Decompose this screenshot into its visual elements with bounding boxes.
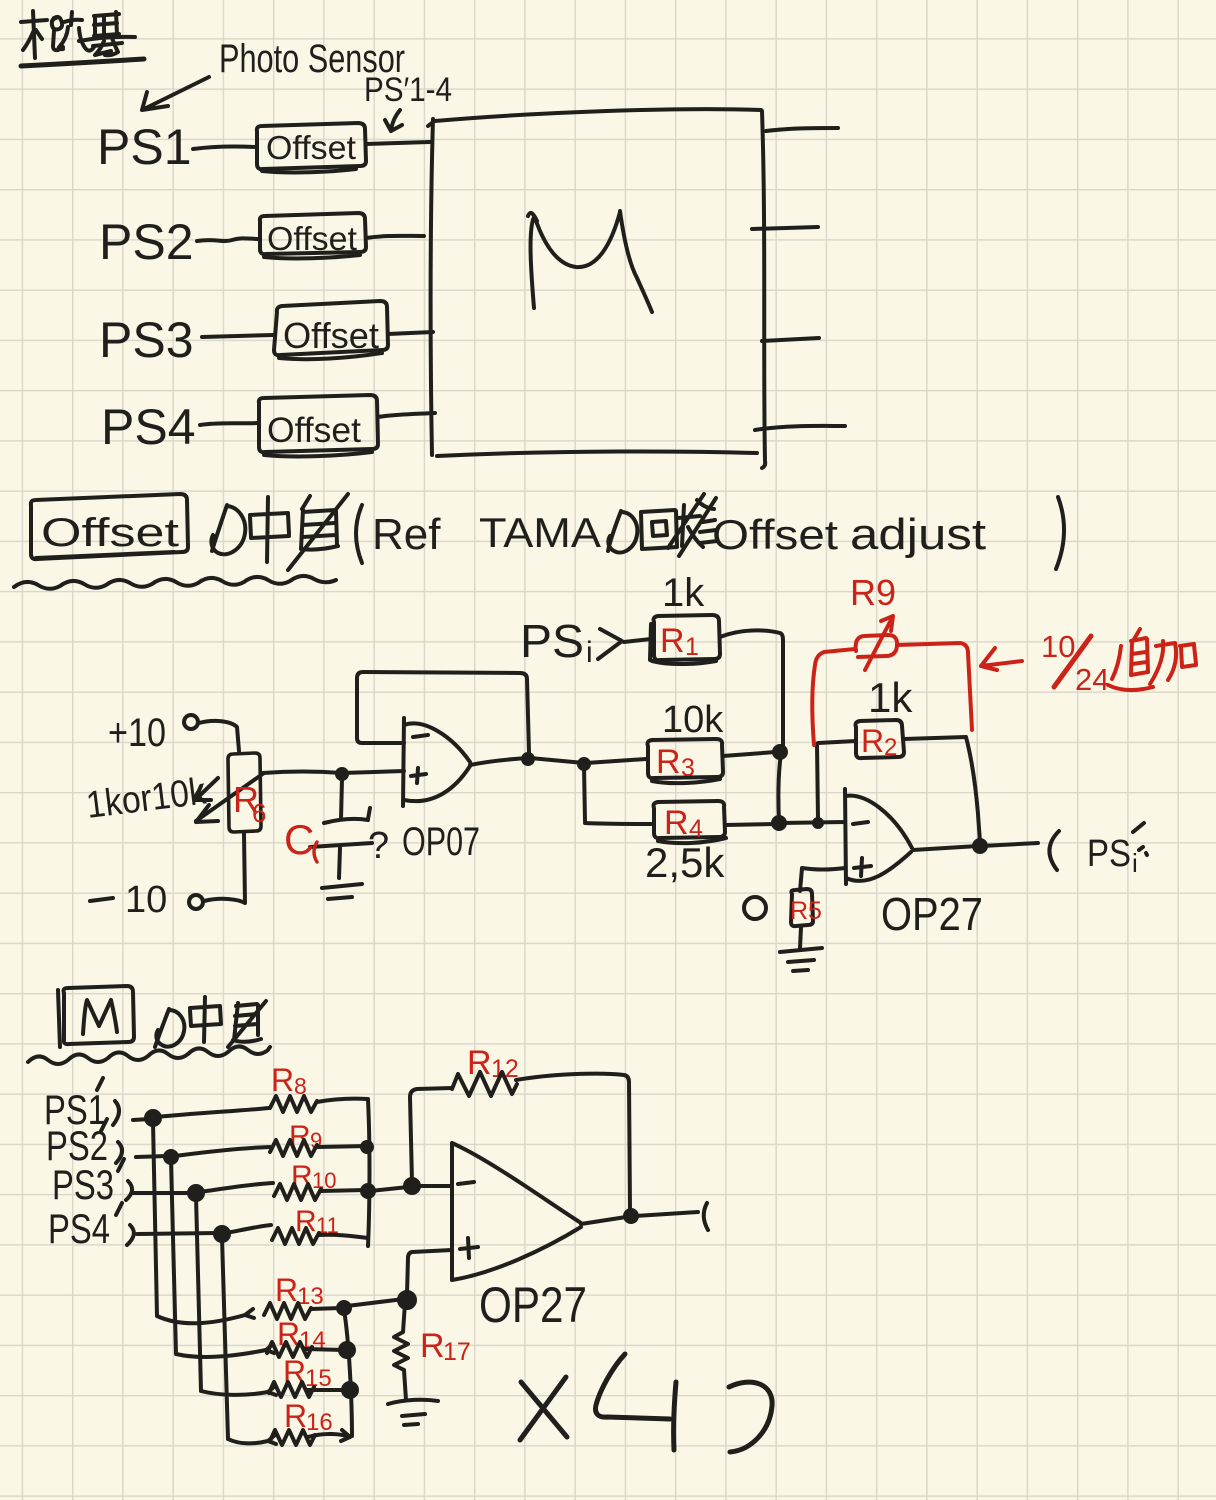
wire PS3' to R10 bbox=[200, 1183, 273, 1192]
wire R3 to bus bbox=[723, 752, 776, 756]
wavy underline bbox=[28, 1046, 270, 1064]
wire R8 to bus bbox=[317, 1099, 368, 1102]
vertical wire PS3' down bbox=[196, 1196, 268, 1395]
svg-text:3: 3 bbox=[681, 754, 695, 782]
resistor R1 bbox=[650, 615, 720, 664]
ground under R5 bbox=[780, 948, 822, 971]
node small at minus bbox=[814, 819, 822, 827]
wire R10 to bus bbox=[321, 1190, 366, 1191]
wire plus node to opamp bbox=[407, 1250, 452, 1294]
svg-text:R: R bbox=[656, 743, 681, 781]
svg-text:Offset: Offset bbox=[712, 511, 838, 558]
node output bbox=[974, 840, 986, 852]
svg-text:OP27: OP27 bbox=[479, 1277, 587, 1333]
opamp U2 OP27 bbox=[845, 789, 912, 884]
svg-text:OP07: OP07 bbox=[402, 820, 480, 864]
svg-text:PS: PS bbox=[520, 615, 584, 667]
open paren bbox=[356, 505, 362, 563]
wire node to opamp minus bbox=[781, 822, 845, 823]
output wire bbox=[581, 1212, 698, 1224]
node at feedback join bbox=[523, 754, 533, 764]
summing bus vertical bbox=[368, 1100, 370, 1246]
svg-text:R: R bbox=[275, 1272, 298, 1308]
offset block 2 bbox=[260, 213, 366, 258]
node R4 bus bbox=[773, 817, 785, 829]
offset block 1 bbox=[257, 123, 366, 172]
wire offset4 to M box bbox=[378, 413, 435, 417]
wire R13 to bus bbox=[311, 1308, 341, 1309]
resistor R17 vertical bbox=[394, 1303, 408, 1400]
M block box bbox=[428, 109, 765, 468]
wire R11 to bus bbox=[319, 1235, 368, 1238]
wire R9 right leg bbox=[897, 643, 972, 730]
kanji の bbox=[155, 1009, 184, 1047]
terminal circle 0 bbox=[744, 897, 766, 919]
output stub 4 bbox=[755, 426, 845, 430]
resistor R8 bbox=[270, 1096, 317, 1112]
resistor R4 bbox=[654, 801, 727, 843]
kanji 中 bbox=[250, 497, 289, 562]
lower bus vertical bbox=[344, 1310, 352, 1436]
feedback wire left R12 bbox=[410, 1088, 452, 1182]
node R1/R3 bus bbox=[774, 746, 786, 758]
resistor R15 bbox=[269, 1382, 314, 1397]
svg-text:2: 2 bbox=[884, 734, 897, 761]
svg-text:PS: PS bbox=[1087, 833, 1131, 875]
svg-text:Ref: Ref bbox=[372, 510, 441, 559]
wire PSi to R1 bbox=[624, 639, 651, 642]
vertical wire PS1' down bbox=[153, 1122, 245, 1323]
resistor R10 bbox=[274, 1184, 321, 1200]
wire PS3 to offset3 bbox=[202, 335, 274, 337]
resistor R3 bbox=[648, 739, 724, 783]
wire pot wiper to opamp bbox=[263, 771, 404, 773]
wire R13 bus to plus node bbox=[347, 1299, 404, 1306]
node R14 bbox=[340, 1343, 354, 1357]
feedback wire OP07 bbox=[357, 672, 529, 753]
title kanji 概要 bbox=[21, 11, 144, 66]
resistor R12 bbox=[452, 1072, 517, 1096]
kanji 回 bbox=[641, 510, 677, 549]
svg-text:PS2: PS2 bbox=[99, 214, 194, 270]
svg-text:+10: +10 bbox=[108, 711, 166, 755]
svg-text:17: 17 bbox=[443, 1338, 471, 1366]
resistor R14 bbox=[267, 1342, 312, 1357]
resistor R2 bbox=[856, 720, 905, 761]
wire to R3 bbox=[586, 759, 646, 763]
wire offset3 to M box bbox=[388, 332, 433, 334]
wire +10 to pot bbox=[199, 721, 239, 751]
input chevron bbox=[598, 629, 622, 659]
arrow PS'1-4 to wire bbox=[385, 110, 402, 131]
junction PS1' bbox=[146, 1111, 160, 1125]
feedback wire right R12 bbox=[516, 1074, 630, 1212]
output stub 1 bbox=[766, 128, 838, 131]
hook arrow R14 bbox=[266, 1344, 274, 1353]
node R13 bbox=[338, 1302, 350, 1314]
svg-text:TAMA: TAMA bbox=[479, 509, 601, 556]
svg-text:24: 24 bbox=[1075, 662, 1109, 697]
wire R9b to bus bbox=[317, 1146, 368, 1147]
ground under C1 bbox=[322, 884, 362, 899]
svg-text:2,5k: 2,5k bbox=[645, 839, 725, 886]
wire R14 to bus bbox=[306, 1349, 344, 1350]
wire PS2' bbox=[136, 1156, 167, 1157]
output stub 3 bbox=[762, 338, 819, 341]
svg-text:10k: 10k bbox=[662, 699, 724, 741]
wire PS1 to offset1 bbox=[193, 146, 256, 149]
offset block 4 bbox=[259, 395, 378, 456]
node R15 bbox=[343, 1383, 357, 1397]
junction PS3' bbox=[189, 1186, 203, 1200]
svg-text:10: 10 bbox=[125, 879, 167, 921]
wire PS2 to offset2 bbox=[197, 238, 259, 241]
svg-text:10: 10 bbox=[1041, 629, 1075, 664]
wire PS1' bbox=[133, 1119, 150, 1120]
svg-text:PS4: PS4 bbox=[101, 399, 196, 455]
wavy underline bbox=[14, 576, 336, 589]
output paren bbox=[704, 1203, 708, 1230]
opamp U3 OP27 bbox=[452, 1143, 581, 1280]
wire PS4 to offset4 bbox=[200, 423, 257, 425]
wire R2 left leg bbox=[817, 741, 856, 820]
svg-text:R: R bbox=[861, 723, 884, 759]
svg-text:1k: 1k bbox=[868, 674, 913, 721]
svg-text:6: 6 bbox=[252, 798, 266, 828]
close paren bbox=[1056, 497, 1064, 569]
wire R9 left leg bbox=[812, 649, 855, 745]
capacitor C1 bbox=[310, 779, 372, 878]
wire PS3' bbox=[133, 1191, 192, 1195]
wire R5 to ground bbox=[800, 927, 801, 948]
wire R1 to bus bbox=[720, 630, 783, 746]
svg-text:R: R bbox=[664, 804, 689, 842]
annotation arrow bbox=[981, 648, 1022, 670]
wire offset1 to M box bbox=[366, 142, 430, 144]
resistor R13 bbox=[264, 1303, 311, 1319]
svg-text:i: i bbox=[1132, 848, 1138, 878]
terminal circle -10 bbox=[189, 895, 203, 909]
svg-text:1k: 1k bbox=[662, 571, 705, 615]
output stub 2 bbox=[752, 227, 818, 229]
svg-text:Offset: Offset bbox=[41, 511, 179, 555]
svg-text:i: i bbox=[586, 636, 593, 669]
potentiometer R6 body bbox=[228, 753, 261, 832]
svg-text:Offset: Offset bbox=[267, 220, 357, 257]
svg-text:?: ? bbox=[368, 825, 389, 867]
output wire OP07 bbox=[470, 758, 584, 765]
title M box bbox=[58, 986, 134, 1047]
wire R15 to bus bbox=[307, 1388, 347, 1392]
wire PS4' bbox=[137, 1233, 218, 1234]
variable resistor R9 bbox=[856, 635, 897, 657]
svg-text:PS4: PS4 bbox=[48, 1205, 110, 1252]
junction PS4' bbox=[215, 1227, 229, 1241]
kanji の bbox=[211, 505, 245, 554]
resistor R16 bbox=[270, 1430, 315, 1445]
wire -10 to pot bbox=[204, 834, 245, 903]
wire R2 right leg bbox=[904, 737, 980, 845]
bus junction R9 bbox=[362, 1142, 372, 1152]
wire PS2' to R9 bbox=[175, 1147, 270, 1156]
kanji の small bbox=[608, 511, 637, 553]
resistor R9b bbox=[270, 1140, 317, 1156]
wire R16 to bus arrow bbox=[308, 1430, 350, 1441]
wire offset2 to M box bbox=[366, 236, 424, 238]
svg-text:adjust: adjust bbox=[850, 510, 986, 559]
svg-text:16: 16 bbox=[306, 1409, 333, 1436]
svg-text:OP27: OP27 bbox=[881, 888, 983, 940]
annotation kanji 追加 bbox=[1108, 629, 1153, 690]
svg-text:PS3: PS3 bbox=[99, 312, 194, 368]
resistor R11 bbox=[272, 1228, 319, 1244]
wire PS1' to R8 bbox=[157, 1108, 269, 1117]
svg-text:R: R bbox=[271, 1062, 294, 1098]
arrow from Photo Sensor to PS labels bbox=[142, 77, 209, 110]
wire plus input to R5 bbox=[800, 868, 845, 891]
junction PS2' bbox=[165, 1151, 177, 1163]
hook arrow R16 bbox=[268, 1435, 276, 1444]
wire bus to minus node bbox=[370, 1187, 408, 1191]
svg-text:R5: R5 bbox=[790, 897, 822, 925]
minus node bbox=[405, 1179, 419, 1193]
svg-text:15: 15 bbox=[305, 1365, 332, 1392]
svg-text:C: C bbox=[284, 816, 314, 863]
vertical wire PS2' down bbox=[171, 1160, 266, 1357]
kanji 路 (scribbled) bbox=[668, 494, 717, 556]
node at branch bbox=[579, 759, 589, 769]
output paren bbox=[1049, 831, 1059, 870]
junction node to C1 bbox=[337, 769, 347, 779]
ground under R17 bbox=[388, 1400, 438, 1425]
M block resonance curve bbox=[528, 211, 652, 312]
red group middle bbox=[812, 572, 1196, 745]
svg-text:R9: R9 bbox=[850, 572, 896, 613]
wire branch down to R4 bbox=[584, 766, 651, 824]
svg-text:1: 1 bbox=[685, 633, 699, 661]
plus node bbox=[399, 1292, 415, 1308]
potentiometer R6 wiper arrow bbox=[196, 773, 264, 822]
svg-text:R: R bbox=[420, 1327, 445, 1365]
offset block 3 bbox=[274, 301, 388, 359]
terminal circle +10 bbox=[184, 715, 198, 729]
label -10 bbox=[90, 898, 113, 901]
kanji 中身 (struck) bbox=[190, 997, 221, 1042]
svg-text:PS1: PS1 bbox=[97, 119, 192, 175]
hook arrow R13 bbox=[245, 1309, 254, 1318]
annotation X4 bbox=[520, 1377, 567, 1440]
hook arrow R15 bbox=[268, 1386, 276, 1395]
bus junction R10 bbox=[362, 1185, 374, 1197]
svg-text:Offset: Offset bbox=[267, 411, 361, 450]
svg-text:R: R bbox=[660, 622, 685, 660]
output wire OP27 bbox=[913, 843, 1038, 850]
vertical wire PS4' down bbox=[222, 1237, 268, 1443]
svg-text:PS3: PS3 bbox=[52, 1161, 114, 1208]
svg-text:Offset: Offset bbox=[266, 129, 356, 166]
svg-text:PS′1-4: PS′1-4 bbox=[364, 71, 452, 109]
opamp U1 OP07 bbox=[403, 718, 470, 806]
wire R4 to node bbox=[725, 824, 776, 825]
wire PS4' to R11 bbox=[226, 1225, 271, 1233]
arrow to pot bbox=[195, 778, 218, 800]
section title: Offset box bbox=[31, 494, 188, 559]
output node bbox=[625, 1210, 637, 1222]
wire minus node to opamp bbox=[414, 1184, 452, 1188]
kanji 身 (struck) bbox=[288, 494, 348, 570]
svg-text:Offset: Offset bbox=[283, 315, 379, 356]
wire bus down bbox=[778, 753, 781, 821]
resistor R5 bbox=[790, 889, 822, 926]
